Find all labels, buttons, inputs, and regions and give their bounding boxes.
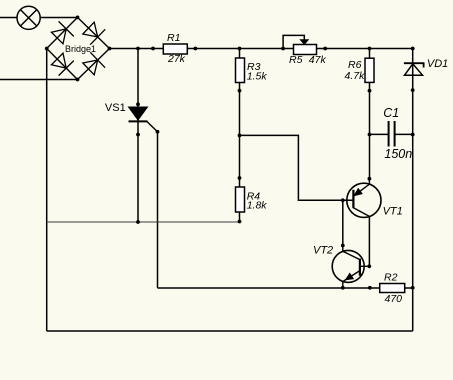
svg-text:C1: C1 xyxy=(383,106,399,120)
base lead xyxy=(360,265,369,267)
node VD1 bottom pin xyxy=(411,88,415,92)
resistor R6 xyxy=(345,58,375,82)
transistor VT2 xyxy=(313,244,369,287)
node VT1 emitter pin xyxy=(368,177,372,181)
collector lead xyxy=(343,246,360,260)
node VS1 gate corner xyxy=(156,130,160,134)
bridge Bridge1 xyxy=(45,16,112,82)
svg-text:VT1: VT1 xyxy=(383,205,403,217)
wiper arrow xyxy=(300,40,308,45)
wire lamp to bridge top xyxy=(40,17,77,19)
node VS1 cathode to mid wire xyxy=(136,220,140,224)
wire VS1 anode branch xyxy=(137,49,139,223)
wire top rail xyxy=(110,48,413,50)
svg-text:150n: 150n xyxy=(384,147,412,161)
wiper wire xyxy=(283,35,304,48)
transistor VT1 xyxy=(347,179,403,218)
svg-text:R2: R2 xyxy=(384,272,398,284)
node VT2 emitter junction xyxy=(341,286,345,290)
node VS1 anode pin xyxy=(136,102,140,106)
diode lower-right xyxy=(83,60,98,75)
diode upper-right xyxy=(83,22,98,37)
node C1 right xyxy=(411,133,415,137)
svg-text:47k: 47k xyxy=(309,54,327,66)
capacitor C1 xyxy=(370,106,413,161)
node VT2 collector pin xyxy=(341,244,345,248)
wire AC input top xyxy=(0,17,17,19)
svg-text:4.7k: 4.7k xyxy=(345,70,366,82)
svg-text:1.8k: 1.8k xyxy=(247,200,268,212)
wire gate down xyxy=(157,132,159,288)
node R1 right pin xyxy=(194,47,198,51)
svg-text:VT2: VT2 xyxy=(313,244,333,256)
svg-text:1.5k: 1.5k xyxy=(247,71,268,83)
collector lead xyxy=(353,208,369,217)
zener diode VD1 xyxy=(404,58,448,75)
wire VT1 collector down to VT2 base xyxy=(368,216,370,266)
wire R3/R4 branch xyxy=(239,49,241,223)
svg-text:R5: R5 xyxy=(289,54,303,66)
emitter lead xyxy=(343,271,360,288)
wire AC input bottom xyxy=(0,79,78,81)
wire base branch xyxy=(240,135,354,200)
potentiometer R5 xyxy=(283,35,326,65)
node R1 left pin xyxy=(151,47,155,51)
gate wire xyxy=(147,121,158,131)
thyristor VS1 xyxy=(105,102,158,132)
emitter arrow (PNP, points to base) xyxy=(354,189,362,196)
bridge pin dots xyxy=(76,16,80,20)
wire R2 row xyxy=(158,287,413,289)
node R6 top xyxy=(368,47,372,51)
wire mid horizontal (left rail to R4) xyxy=(47,221,240,223)
node R2 left pin xyxy=(368,286,372,290)
node R3/R4 junction xyxy=(238,134,242,138)
svg-text:470: 470 xyxy=(385,293,403,305)
base bar xyxy=(359,259,361,276)
node R3 bottom pin xyxy=(238,89,242,93)
emitter arrow (NPN, points away) xyxy=(345,273,353,280)
svg-text:27k: 27k xyxy=(167,53,186,65)
node C1 left xyxy=(368,133,372,137)
resistor R4 xyxy=(236,187,268,212)
svg-text:Bridge1: Bridge1 xyxy=(65,44,96,54)
wire bottom rail xyxy=(47,330,413,332)
wire right rail xyxy=(412,49,414,332)
node R5 right pin xyxy=(323,47,327,51)
wire left rail xyxy=(46,49,48,332)
wire VT2 collector up xyxy=(342,200,344,245)
node VT1 base pin xyxy=(341,198,345,202)
svg-text:R1: R1 xyxy=(167,32,180,44)
node R4 bottom xyxy=(238,220,242,224)
node VD1 top xyxy=(411,47,415,51)
diode lower-left xyxy=(51,53,66,68)
resistor R1 xyxy=(163,32,187,65)
node VS1 cathode pin xyxy=(136,133,140,137)
node R2 right pin xyxy=(411,286,415,290)
node VS1 anode tap xyxy=(136,47,140,51)
node R4 top pin xyxy=(238,176,242,180)
node R6 bottom pin xyxy=(368,89,372,93)
lamp xyxy=(17,6,40,29)
node R5 left pin xyxy=(281,47,285,51)
svg-text:VS1: VS1 xyxy=(105,102,126,114)
svg-text:VD1: VD1 xyxy=(427,58,448,70)
diode upper-left xyxy=(51,29,66,44)
node VT2 base pin xyxy=(367,264,371,268)
wire R6/C1/VT1 vertical xyxy=(369,49,371,179)
base bar xyxy=(352,190,354,208)
resistor R3 xyxy=(236,58,268,83)
node R3 top xyxy=(238,47,242,51)
resistor R2 xyxy=(380,272,405,306)
emitter lead xyxy=(353,179,369,197)
